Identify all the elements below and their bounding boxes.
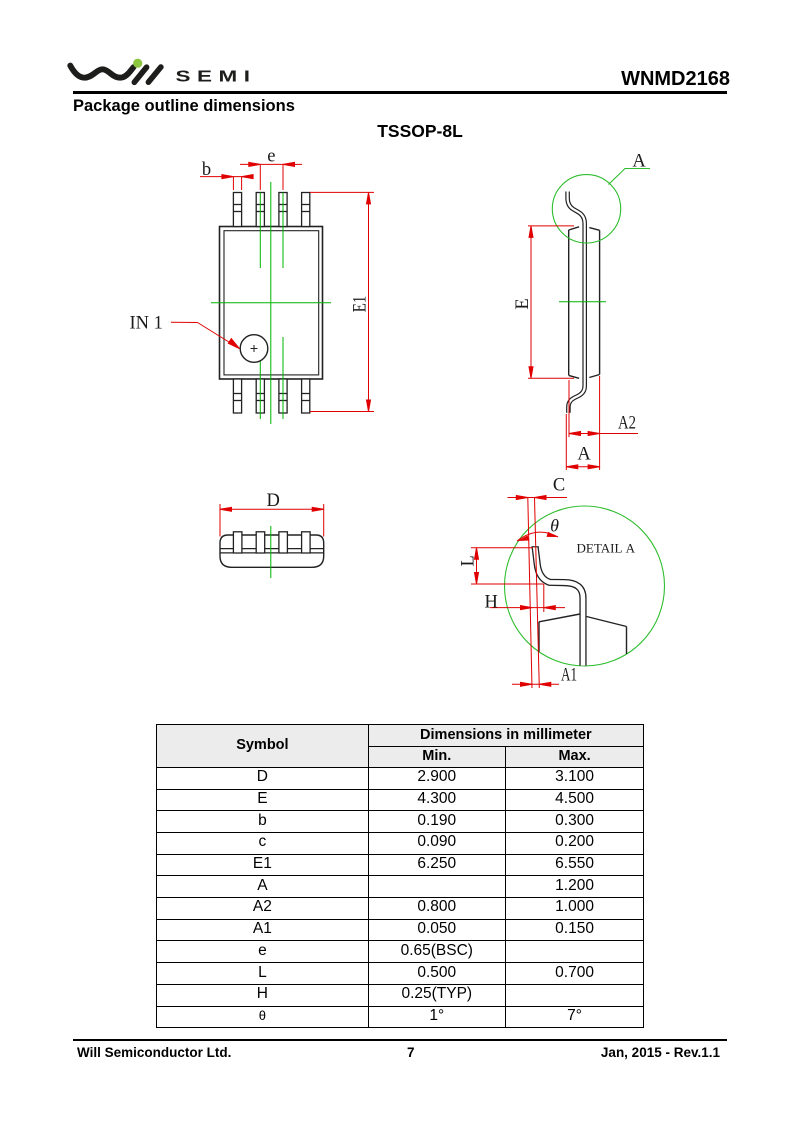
side view lead (gull wing) <box>568 192 585 413</box>
svg-text:e: e <box>267 147 275 167</box>
dimension C extension lines (lead edges extended, red) <box>508 496 568 689</box>
dimension A (side) <box>566 414 599 470</box>
dimension E1 <box>310 192 374 411</box>
footer date/rev <box>520 1045 720 1060</box>
pin2 centerline (green) <box>259 193 261 269</box>
footer page number <box>407 1045 415 1060</box>
centerline horizontal (green) <box>211 302 331 304</box>
dimension e <box>240 162 302 190</box>
svg-text:E1: E1 <box>351 296 371 313</box>
svg-text:E: E <box>513 298 533 309</box>
detail A circle (green) <box>505 506 665 666</box>
wave W <box>70 66 133 78</box>
front view centerline (green) <box>270 526 272 578</box>
green dot <box>133 59 142 68</box>
dimensions table <box>156 724 644 1029</box>
pin1 marker cross <box>251 345 258 352</box>
top view: package body inner rect <box>224 231 319 375</box>
part number WNMD2168 <box>540 68 730 91</box>
svg-text:A1: A1 <box>561 666 577 686</box>
pin bend lines bottom <box>233 394 309 401</box>
footer rule <box>73 1039 727 1042</box>
slash l1 <box>134 67 146 82</box>
CAD drawing <box>0 0 800 720</box>
svg-text:D: D <box>267 491 280 511</box>
top view: package body outer rect <box>220 227 323 380</box>
dimension H <box>490 584 565 612</box>
side view body <box>569 227 600 378</box>
leader IN 1 (red) <box>171 322 240 348</box>
detail A lead tip cap <box>531 546 538 548</box>
pins bottom row <box>233 379 309 413</box>
svg-text:θ: θ <box>550 516 559 536</box>
front view pins <box>233 532 310 553</box>
detail A body outline <box>539 614 627 654</box>
detail callout circle A (green) <box>552 175 620 243</box>
svg-text:L: L <box>459 555 479 566</box>
pins top row <box>233 193 309 227</box>
front view parting lines <box>220 548 324 550</box>
slash l2 <box>148 67 161 82</box>
dimension b <box>200 175 253 190</box>
dimension E <box>528 226 574 378</box>
heading Package outline dimensions <box>73 96 295 117</box>
detail A lead <box>535 547 583 666</box>
pin bend lines top <box>233 205 309 212</box>
pin3 centerline (green) <box>282 193 284 269</box>
header rule <box>73 91 727 93</box>
svg-text:A2: A2 <box>618 414 636 434</box>
centerline vertical (green) <box>270 182 272 424</box>
footer company <box>77 1045 231 1060</box>
dimension L <box>471 548 544 584</box>
svg-text:b: b <box>202 160 211 180</box>
title TSSOP-8L <box>0 121 800 143</box>
dimension A2 <box>569 376 638 470</box>
svg-text:H: H <box>485 593 498 613</box>
logo Will SEMI <box>60 48 260 92</box>
dimension D <box>220 504 324 537</box>
pin1 marker circle <box>240 335 268 363</box>
front view body <box>220 535 324 567</box>
svg-text:DETAIL A: DETAIL A <box>577 541 636 556</box>
svg-text:A: A <box>632 152 646 172</box>
theta angle arc (red) <box>517 532 558 541</box>
side view centerline (green) <box>559 301 606 303</box>
svg-text:IN 1: IN 1 <box>130 314 163 334</box>
svg-text:C: C <box>553 476 565 496</box>
leader to A (green) <box>609 169 651 185</box>
dimension A1 <box>512 682 559 686</box>
svg-text:A: A <box>577 445 591 465</box>
